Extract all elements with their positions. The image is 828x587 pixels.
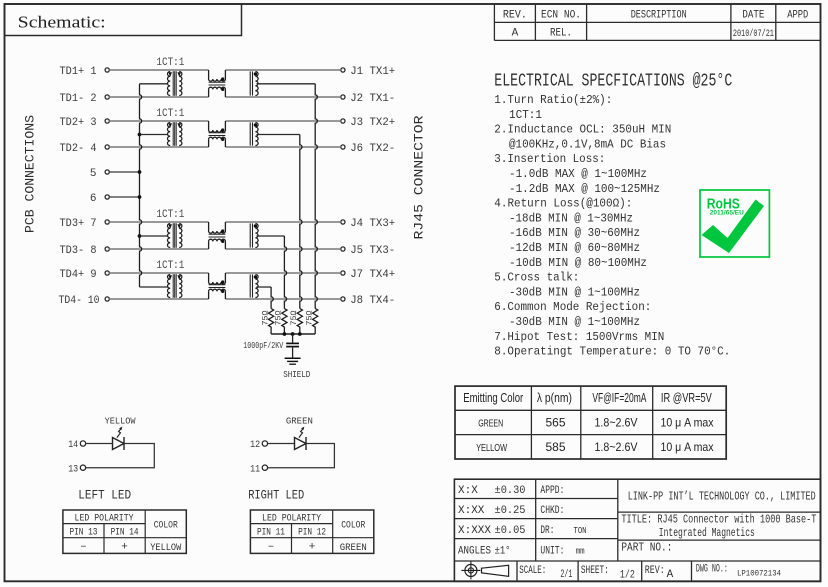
capacitor C1 1000pF/2KV (292, 334, 294, 343)
choke L3 top winding (208, 222, 210, 231)
transformer T4 polarity arrow primary (168, 275, 172, 280)
svg-text:J2 TX1-: J2 TX1- (350, 93, 395, 105)
svg-text:PIN 13: PIN 13 (69, 527, 97, 539)
wire to J5 (225, 248, 340, 250)
emitting color table grid (455, 386, 726, 459)
svg-text:±0.30: ±0.30 (495, 485, 526, 497)
wire to J4 (225, 221, 340, 223)
wire center tap T4 (140, 286, 168, 288)
svg-text:75Ω: 75Ω (275, 310, 284, 325)
LED polarity table GREEN text (257, 513, 367, 554)
svg-text:TD3- 8: TD3- 8 (60, 245, 97, 257)
svg-text:-16dB MIN @ 30~60MHz: -16dB MIN @ 30~60MHz (509, 226, 640, 240)
autotransformer A4 winding (255, 275, 258, 298)
svg-text:SHIELD: SHIELD (283, 370, 310, 380)
LED diode RIGHT LED (295, 438, 307, 450)
wire output center tap T2 (256, 134, 299, 136)
svg-text:SHEET:: SHEET: (581, 565, 609, 577)
svg-text:TD1- 2: TD1- 2 (60, 93, 97, 105)
svg-text:±0.25: ±0.25 (495, 505, 526, 517)
wire to J3 (225, 120, 340, 122)
transformer T4 secondary winding (179, 275, 182, 298)
svg-text:585: 585 (545, 440, 565, 454)
svg-text:J7 TX4+: J7 TX4+ (350, 269, 395, 281)
svg-text:75Ω: 75Ω (305, 310, 314, 325)
pin 12 (262, 441, 267, 446)
svg-text:RIGHT LED: RIGHT LED (248, 488, 304, 502)
wire TD pin 10 (109, 298, 208, 300)
svg-text:1CT:1: 1CT:1 (156, 108, 184, 120)
pin J4 RJ45 side (341, 220, 345, 224)
wire drop to termination T2 (300, 135, 302, 309)
svg-text:-30dB MIN @ 1~100MHz: -30dB MIN @ 1~100MHz (509, 285, 640, 299)
svg-text:YELLOW: YELLOW (105, 415, 136, 426)
autotransformer A2 polarity dot (254, 123, 257, 126)
svg-text:12: 12 (250, 440, 260, 451)
pin J8 RJ45 side (341, 297, 345, 301)
svg-text:6: 6 (90, 193, 97, 205)
choke L3 polarity dots (221, 229, 224, 232)
transformer T2 secondary winding (179, 123, 182, 146)
title box Schematic (5, 4, 242, 36)
transformer T1 polarity arrow primary (168, 72, 172, 77)
svg-text:RJ45 CONNECTOR: RJ45 CONNECTOR (411, 115, 426, 239)
svg-text:REV.: REV. (503, 9, 527, 21)
svg-text:TON: TON (574, 526, 587, 536)
svg-text:-12dB MIN @ 60~80MHz: -12dB MIN @ 60~80MHz (509, 241, 640, 255)
svg-text:1CT:1: 1CT:1 (156, 209, 184, 221)
choke L1 core (209, 81, 226, 83)
svg-text:SCALE:: SCALE: (519, 565, 546, 577)
wire TD pin 9 (109, 272, 208, 274)
projection symbol (461, 561, 508, 579)
svg-text:X:X: X:X (458, 485, 478, 497)
pin J5 RJ45 side (341, 247, 345, 251)
pin J7 RJ45 side (341, 271, 345, 275)
svg-text:TD2- 4: TD2- 4 (60, 143, 97, 155)
autotransformer A2 winding (255, 123, 258, 146)
svg-text:A: A (667, 569, 674, 581)
autotransformer A3 core (249, 223, 251, 247)
revision table grid (494, 4, 820, 40)
svg-text:J6 TX2-: J6 TX2- (350, 143, 395, 155)
pin 8 TD side (105, 247, 109, 251)
wire TD pin 6 (109, 196, 139, 198)
choke L1 top winding (208, 70, 210, 79)
pin 6 TD side (105, 195, 109, 199)
wire drop to termination T1 (315, 84, 317, 309)
svg-text:1000pF/2KV: 1000pF/2KV (243, 341, 283, 351)
wire drop to termination T3 (284, 236, 286, 309)
svg-text:REV:: REV: (645, 565, 665, 577)
svg-text:J4 TX3+: J4 TX3+ (350, 218, 395, 230)
RoHS checkmark (702, 200, 765, 254)
svg-text:-1.2dB MAX @ 100~125MHz: -1.2dB MAX @ 100~125MHz (509, 182, 660, 196)
svg-text:5: 5 (90, 168, 97, 180)
pin 14 (80, 441, 85, 446)
svg-text:UNIT:: UNIT: (540, 546, 564, 558)
transformer T3 polarity arrow primary (168, 224, 172, 229)
transformer T2 primary winding (167, 123, 170, 146)
svg-text:2010/07/21: 2010/07/21 (733, 28, 774, 40)
transformer T3 core (172, 223, 174, 248)
LED diode LEFT LED (113, 438, 125, 450)
svg-text:TITLE: RJ45 Connector with 10: TITLE: RJ45 Connector with 1000 Base-T (621, 512, 816, 526)
transformer T3 primary winding (168, 224, 171, 248)
svg-text:VF@IF=20mA: VF@IF=20mA (592, 390, 646, 405)
emitting color table text (463, 390, 713, 454)
svg-text:GREEN: GREEN (340, 543, 367, 554)
svg-text:A: A (512, 28, 519, 40)
svg-text:75Ω: 75Ω (261, 310, 270, 325)
pin 13 (80, 465, 85, 470)
svg-text:+: + (121, 542, 128, 554)
svg-text:X:XX: X:XX (458, 505, 485, 517)
transformer T3 polarity arrow secondary (177, 224, 181, 229)
resistor R3 75ohm (282, 309, 287, 335)
pin J2 RJ45 side (341, 95, 345, 99)
svg-text:DR:: DR: (540, 525, 554, 537)
svg-text:COLOR: COLOR (154, 520, 179, 532)
svg-text:λ p(nm): λ p(nm) (537, 390, 572, 405)
revision table text (503, 9, 809, 39)
svg-text:7.Hipot Test: 1500Vrms MIN: 7.Hipot Test: 1500Vrms MIN (494, 330, 664, 344)
wire output center tap T4 (256, 286, 271, 288)
choke L2 bottom winding (208, 139, 210, 147)
svg-text:TD4+ 9: TD4+ 9 (60, 269, 97, 281)
LED polarity table GREEN grid (250, 510, 373, 553)
svg-text:J3 TX2+: J3 TX2+ (350, 117, 395, 129)
svg-text:J5 TX3-: J5 TX3- (350, 245, 395, 257)
svg-text:IR @VR=5V: IR @VR=5V (661, 390, 712, 405)
pin J6 RJ45 side (341, 145, 345, 149)
svg-text:DESCRIPTION: DESCRIPTION (631, 9, 687, 21)
svg-text:10 μ A max: 10 μ A max (661, 440, 714, 454)
autotransformer A1 polarity dot (254, 72, 257, 75)
choke L4 bottom winding (208, 291, 210, 299)
svg-text:1CT:1: 1CT:1 (509, 108, 542, 122)
svg-text:YELLOW: YELLOW (150, 543, 181, 554)
pin J1 RJ45 side (341, 68, 345, 72)
autotransformer A3 polarity dot (254, 224, 257, 227)
wire TD pin 3 (109, 120, 208, 122)
svg-text:mm: mm (576, 547, 585, 557)
svg-text:LEFT LED: LEFT LED (78, 488, 131, 502)
wire center tap T1 (140, 83, 168, 85)
svg-text:LED POLARITY: LED POLARITY (262, 513, 322, 525)
pin 2 TD side (105, 95, 109, 99)
svg-text:Schematic:: Schematic: (18, 13, 106, 32)
svg-text:5.Cross talk:: 5.Cross talk: (494, 271, 579, 285)
transformer T4 polarity arrow secondary (177, 275, 181, 280)
svg-text:X:XXX: X:XXX (458, 525, 491, 537)
autotransformer A4 core (249, 274, 251, 297)
svg-text:4.Return Loss(@100Ω):: 4.Return Loss(@100Ω): (494, 197, 632, 211)
svg-text:2011/65/EU: 2011/65/EU (710, 209, 744, 216)
choke L4 core (209, 284, 226, 286)
node primary center-tap rail (140, 84, 142, 287)
svg-text:GREEN: GREEN (286, 415, 313, 426)
svg-text:+: + (309, 542, 316, 554)
wire to J6 (225, 146, 340, 148)
pin J3 RJ45 side (341, 119, 345, 123)
pin 4 TD side (105, 145, 109, 149)
LED LEFT LED flash arrow (117, 428, 122, 438)
transformer T3 secondary winding (179, 224, 182, 248)
wire to J2 (225, 96, 340, 98)
svg-text:J8 TX4-: J8 TX4- (350, 295, 395, 307)
svg-text:Integrated Magnetics: Integrated Magnetics (659, 526, 755, 540)
svg-text:@100KHz,0.1V,8mA DC Bias: @100KHz,0.1V,8mA DC Bias (509, 137, 666, 151)
svg-text:J1 TX1+: J1 TX1+ (350, 66, 395, 78)
svg-text:-30dB MIN @ 1~100MHz: -30dB MIN @ 1~100MHz (509, 315, 640, 329)
wire to J7 (225, 272, 340, 274)
autotransformer A1 winding (255, 72, 258, 96)
resistor R1 75ohm (313, 309, 318, 335)
wire center tap T2 (140, 134, 168, 136)
junction (298, 332, 302, 336)
wire LED LEFT LED (86, 443, 113, 445)
svg-text:LP10072134: LP10072134 (737, 570, 781, 579)
svg-text:10 μ A max: 10 μ A max (661, 416, 714, 430)
wire LED RIGHT LED (268, 443, 295, 445)
autotransformer A2 core (249, 122, 251, 145)
pin 3 TD side (105, 119, 109, 123)
svg-text:REL.: REL. (550, 28, 572, 40)
ground shield (285, 357, 301, 359)
transformer T2 polarity arrow secondary (177, 123, 181, 128)
title block grid (454, 479, 820, 581)
svg-text:TD2+ 3: TD2+ 3 (60, 117, 97, 129)
junction (138, 234, 142, 238)
wire TD pin 4 (109, 146, 208, 148)
svg-text:±0.05: ±0.05 (495, 525, 526, 537)
pin 9 TD side (105, 271, 109, 275)
svg-text:1/2: 1/2 (620, 569, 635, 581)
svg-text:-10dB MIN @ 80~100MHz: -10dB MIN @ 80~100MHz (509, 256, 647, 270)
svg-text:75Ω: 75Ω (290, 310, 299, 325)
wire center tap T3 (140, 235, 168, 237)
svg-text:DATE: DATE (742, 9, 764, 21)
svg-text:PIN 14: PIN 14 (111, 527, 139, 539)
RoHS logo box (700, 190, 769, 257)
pin 10 TD side (105, 297, 109, 301)
svg-text:-1.0dB MAX @ 1~100MHz: -1.0dB MAX @ 1~100MHz (509, 167, 647, 181)
pin 7 TD side (105, 220, 109, 224)
autotransformer A3 winding (255, 224, 258, 248)
svg-text:YELLOW: YELLOW (476, 443, 507, 454)
choke L2 top winding (208, 121, 210, 130)
svg-text:565: 565 (545, 416, 565, 430)
svg-text:ECN NO.: ECN NO. (541, 9, 581, 21)
svg-text:LINK-PP INT’L TECHNOLOGY CO.,: LINK-PP INT’L TECHNOLOGY CO., LIMITED (628, 490, 816, 504)
transformer T2 polarity arrow primary (168, 123, 172, 128)
svg-text:1.Turn Ratio(±2%):: 1.Turn Ratio(±2%): (494, 93, 612, 107)
wire TD pin 8 (109, 248, 208, 250)
svg-text:PCB CONNECTIONS: PCB CONNECTIONS (22, 115, 37, 233)
svg-text:1.8~2.6V: 1.8~2.6V (595, 416, 638, 430)
transformer T1 primary winding (168, 72, 171, 96)
svg-text:±1°: ±1° (495, 546, 511, 558)
wire TD pin 1 (109, 69, 208, 71)
svg-text:TD3+ 7: TD3+ 7 (60, 218, 97, 230)
svg-text:ELECTRICAL SPECFICATIONS @25°C: ELECTRICAL SPECFICATIONS @25°C (494, 71, 732, 91)
choke L2 polarity dots (221, 128, 224, 131)
choke L3 bottom winding (208, 241, 210, 249)
transformer T1 secondary winding (179, 72, 182, 96)
junction (138, 195, 142, 199)
svg-text:Emitting Color: Emitting Color (463, 390, 523, 405)
svg-text:COLOR: COLOR (341, 520, 366, 532)
svg-text:2/1: 2/1 (560, 569, 572, 581)
svg-text:GREEN: GREEN (478, 418, 503, 429)
junction (283, 332, 287, 336)
junction (138, 133, 142, 137)
autotransformer A4 polarity dot (254, 275, 257, 278)
svg-text:−: − (80, 543, 86, 554)
wire TD pin 2 (109, 96, 208, 98)
transformer T2 core (172, 122, 174, 146)
junction (291, 332, 295, 336)
junction (138, 170, 142, 174)
svg-text:LED POLARITY: LED POLARITY (75, 513, 135, 525)
svg-text:1CT:1: 1CT:1 (156, 260, 184, 272)
wire to J8 (225, 298, 340, 300)
svg-text:2.Inductance OCL: 350uH MIN: 2.Inductance OCL: 350uH MIN (494, 123, 671, 137)
svg-text:6.Common Mode Rejection:: 6.Common Mode Rejection: (494, 300, 651, 314)
wire termination rail (271, 333, 315, 335)
transformer T1 polarity arrow secondary (177, 72, 181, 77)
wire output center tap T3 (256, 235, 284, 237)
svg-text:APPD:: APPD: (540, 485, 564, 497)
svg-text:PIN 11: PIN 11 (257, 527, 285, 539)
svg-text:CHKD:: CHKD: (540, 505, 564, 517)
wire to J1 (225, 69, 340, 71)
LED polarity table YELLOW grid (63, 510, 186, 553)
svg-text:-18dB MIN @ 1~30MHz: -18dB MIN @ 1~30MHz (509, 211, 633, 225)
autotransformer A1 core (249, 71, 251, 95)
svg-text:APPD: APPD (787, 9, 808, 21)
svg-text:1CT:1: 1CT:1 (156, 57, 184, 69)
svg-text:PART NO.:: PART NO.: (621, 541, 672, 554)
choke L3 core (209, 233, 226, 235)
wire TD pin 5 (109, 171, 139, 173)
svg-text:TD4- 10: TD4- 10 (59, 295, 100, 307)
wire output center tap T1 (256, 83, 315, 85)
svg-text:14: 14 (68, 440, 78, 451)
resistor R4 75ohm (269, 309, 274, 335)
scale sheet rev dwg text (519, 563, 781, 581)
choke L4 polarity dots (221, 280, 224, 283)
svg-text:ANGLES: ANGLES (458, 546, 491, 558)
resistor R2 75ohm (297, 309, 302, 335)
choke L2 core (209, 132, 226, 134)
transformer T1 core (172, 71, 174, 96)
LED RIGHT LED flash arrow (299, 428, 304, 438)
svg-text:TD1+ 1: TD1+ 1 (60, 66, 97, 78)
svg-text:3.Insertion Loss:: 3.Insertion Loss: (494, 152, 605, 166)
pin 1 TD side (105, 68, 109, 72)
svg-text:−: − (268, 543, 274, 554)
wire TD pin 7 (109, 221, 208, 223)
wire drop to termination T4 (271, 287, 273, 309)
svg-text:13: 13 (68, 464, 78, 475)
transformer T4 primary winding (168, 275, 171, 298)
svg-text:PIN 12: PIN 12 (298, 527, 326, 539)
choke L1 bottom winding (208, 89, 210, 97)
svg-text:1.8~2.6V: 1.8~2.6V (595, 440, 638, 454)
svg-text:DWG NO.:: DWG NO.: (696, 563, 728, 575)
choke L1 polarity dots (221, 77, 224, 80)
svg-text:11: 11 (250, 464, 260, 475)
LED polarity table YELLOW text (69, 513, 181, 554)
choke L4 top winding (208, 273, 210, 282)
pin 11 (262, 465, 267, 470)
svg-text:8.Operatingt Temperature: 0 TO: 8.Operatingt Temperature: 0 TO 70°C. (494, 345, 730, 359)
transformer T4 core (172, 274, 174, 298)
title block tolerances text (458, 485, 587, 558)
pin 5 TD side (105, 170, 109, 174)
specifications list (494, 93, 730, 359)
